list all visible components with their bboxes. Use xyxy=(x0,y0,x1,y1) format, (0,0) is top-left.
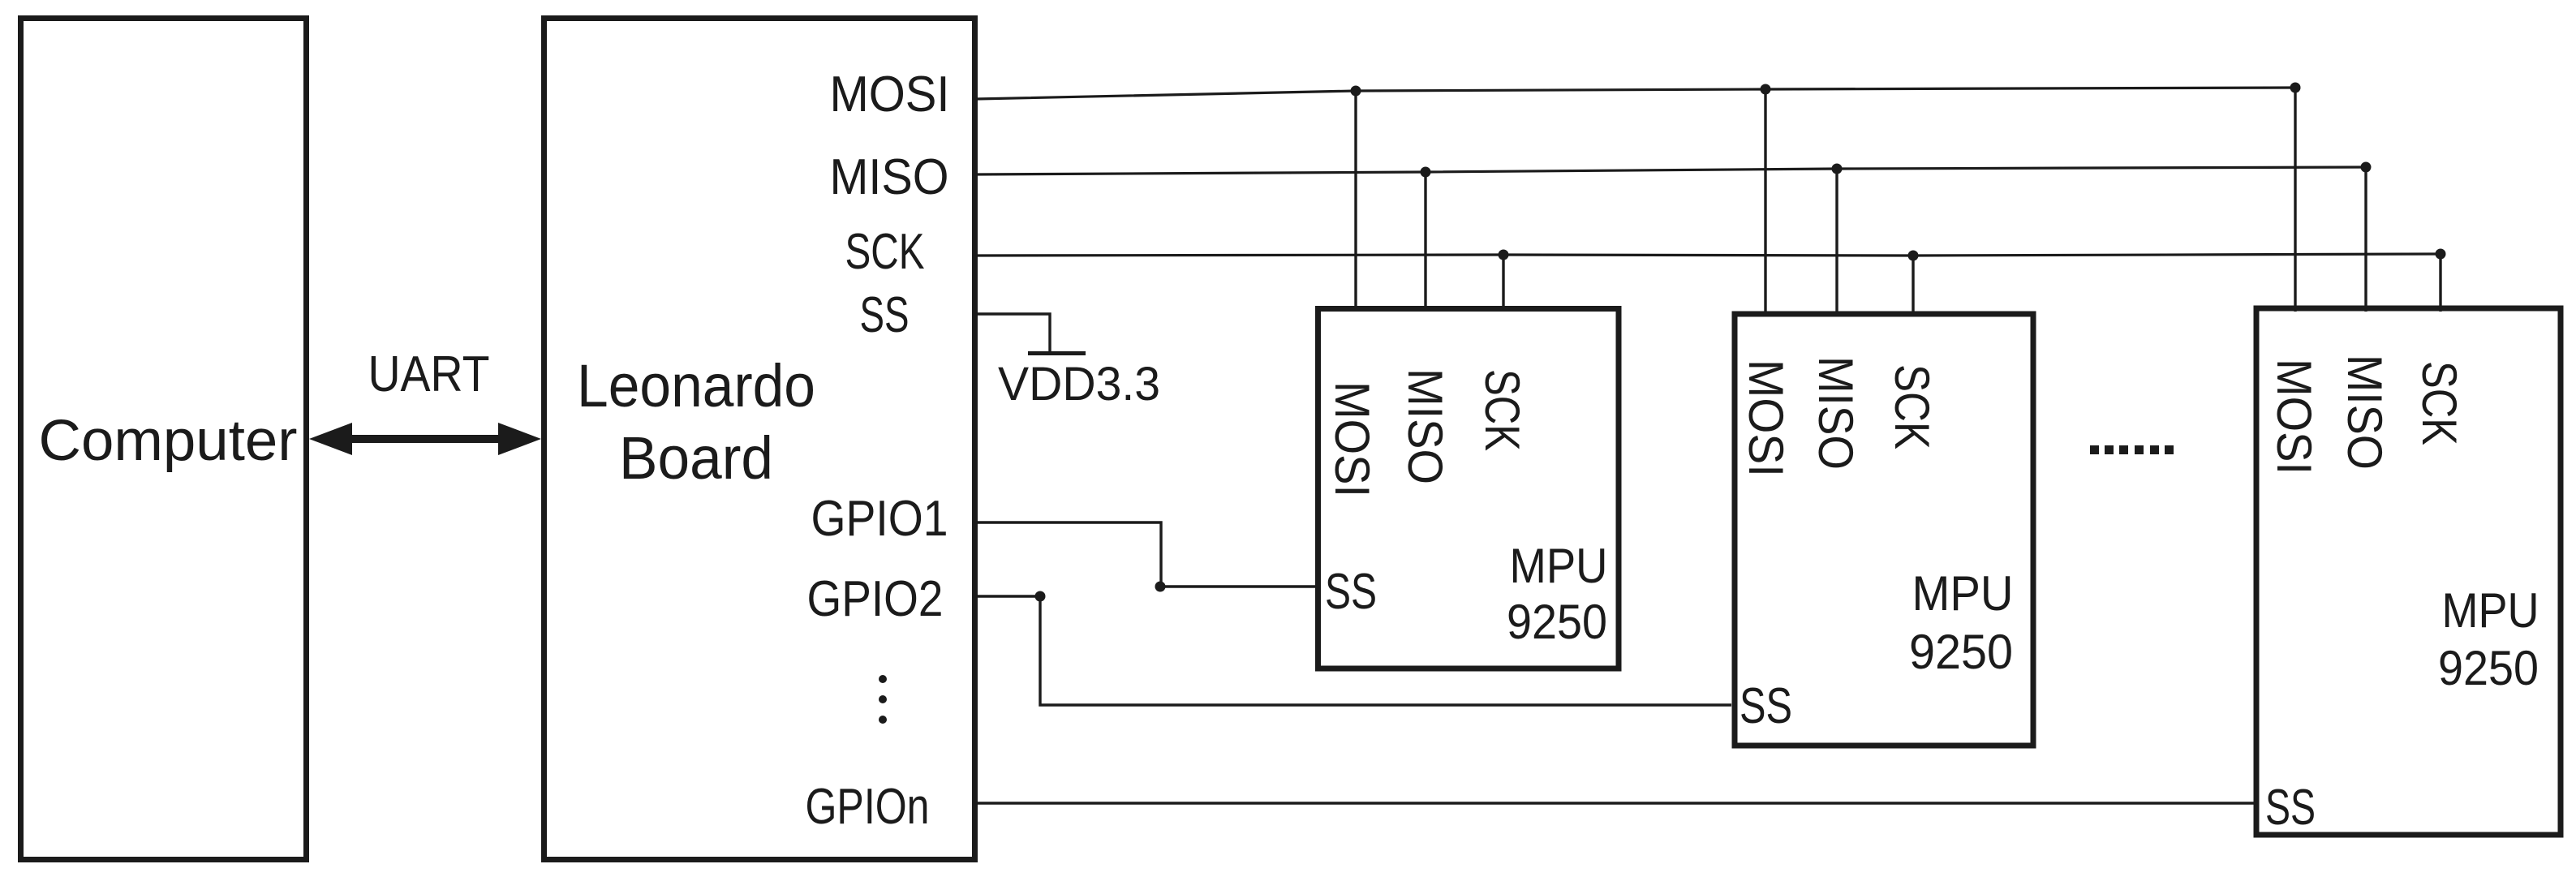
pin label MISO (MPU3, rotated) xyxy=(2337,355,2392,470)
wire MISO drop to MPU3 xyxy=(2364,167,2367,312)
svg-text:SS: SS xyxy=(860,287,910,343)
wire MISO drop to MPU2 xyxy=(1835,169,1838,316)
wire SCK drop to MPU3 xyxy=(2439,254,2441,312)
wire GPIOn to MPU3 SS xyxy=(976,802,2256,804)
UART bidirectional arrow xyxy=(309,423,541,455)
svg-text:GPIO1: GPIO1 xyxy=(811,491,948,547)
junction node SCK-MPU1 xyxy=(1499,250,1509,260)
part label MPU 9250 (MPU3) xyxy=(2438,583,2539,695)
wire MOSI bus xyxy=(976,88,2295,99)
pin label SS (leonardo) xyxy=(860,287,910,343)
svg-text:SS: SS xyxy=(1325,564,1377,620)
pin label SS (MPU1) xyxy=(1325,564,1377,620)
wire SCK drop to MPU2 xyxy=(1912,256,1914,316)
pin label GPIO1 (leonardo) xyxy=(811,491,948,547)
pin label GPIO2 (leonardo) xyxy=(807,571,944,627)
vertical ellipsis (leonardo GPIO dots) xyxy=(879,675,887,724)
pin label MISO (MPU2, rotated) xyxy=(1808,356,1863,470)
svg-text:SCK: SCK xyxy=(2412,361,2466,445)
svg-text:Leonardo: Leonardo xyxy=(577,352,815,419)
wire MOSI drop to MPU2 xyxy=(1764,89,1766,316)
svg-text:SS: SS xyxy=(1740,678,1792,734)
pin label SS (MPU3) xyxy=(2265,780,2316,836)
wire MOSI drop to MPU1 xyxy=(1354,91,1357,312)
svg-text:MISO: MISO xyxy=(830,149,949,205)
svg-text:SCK: SCK xyxy=(1475,369,1529,451)
power label VDD3.3 xyxy=(998,358,1160,411)
pin label SCK (MPU2, rotated) xyxy=(1885,364,1939,449)
part label MPU 9250 (MPU2) xyxy=(1909,566,2014,679)
svg-text:VDD3.3: VDD3.3 xyxy=(998,358,1160,411)
part label MPU 9250 (MPU1) xyxy=(1507,539,1608,649)
junction node SCK-MPU3 xyxy=(2436,249,2446,260)
svg-text:9250: 9250 xyxy=(1909,625,2013,679)
svg-text:SCK: SCK xyxy=(1885,364,1939,449)
pin label SS (MPU2) xyxy=(1740,678,1792,734)
pin label MISO (leonardo) xyxy=(830,149,949,205)
wire GPIO1 to MPU1 SS xyxy=(976,522,1315,587)
svg-text:9250: 9250 xyxy=(2438,641,2539,695)
pin label MISO (MPU1, rotated) xyxy=(1398,368,1452,484)
power rail bar VDD3.3 xyxy=(1028,351,1086,355)
pin label MOSI (leonardo) xyxy=(830,67,950,123)
leonardo board label xyxy=(577,352,815,492)
svg-text:GPIO2: GPIO2 xyxy=(807,571,944,627)
pin label SCK (leonardo) xyxy=(845,224,925,280)
pin label GPIOn (leonardo) xyxy=(806,779,930,835)
computer label xyxy=(39,409,298,473)
svg-text:MISO: MISO xyxy=(1398,368,1452,484)
svg-text:9250: 9250 xyxy=(1507,595,1607,649)
pin label MOSI (MPU3, rotated) xyxy=(2267,359,2321,475)
UART label xyxy=(368,346,490,402)
leonardo board block U-LEO xyxy=(544,19,975,860)
MPU1 block (MPU 9250) xyxy=(1318,309,1619,669)
junction node SCK-MPU2 xyxy=(1908,251,1919,261)
junction node MOSI-MPU2 xyxy=(1761,84,1771,95)
junction node MOSI-MPU1 xyxy=(1351,86,1361,97)
wire GPIO2 to MPU2 SS xyxy=(976,596,1731,705)
MPU3 block (MPU 9250) xyxy=(2256,308,2561,835)
svg-text:Computer: Computer xyxy=(39,409,298,473)
wire MISO drop to MPU1 xyxy=(1424,172,1426,312)
wire MISO bus xyxy=(976,167,2366,174)
ellipsis dots between MPU2 and MPU3 xyxy=(2090,445,2174,454)
wire SS stub to VDD xyxy=(976,314,1050,351)
svg-text:MOSI: MOSI xyxy=(1739,359,1793,477)
svg-text:MPU: MPU xyxy=(2442,583,2539,638)
svg-text:GPIOn: GPIOn xyxy=(806,779,930,835)
wire SCK bus xyxy=(976,254,2441,256)
junction node MISO-MPU1 xyxy=(1421,167,1431,178)
junction node MISO-MPU3 xyxy=(2361,162,2372,173)
wire MOSI drop to MPU3 xyxy=(2294,88,2296,312)
pin label SCK (MPU1, rotated) xyxy=(1475,369,1529,451)
svg-text:MOSI: MOSI xyxy=(1325,381,1379,497)
junction node MOSI-MPU3 xyxy=(2290,83,2301,93)
junction node GPIO2 corner xyxy=(1035,591,1046,602)
pin label MOSI (MPU1, rotated) xyxy=(1325,381,1379,497)
junction node GPIO1 corner xyxy=(1155,582,1166,592)
computer block U-PC xyxy=(21,19,307,860)
svg-text:SCK: SCK xyxy=(845,224,925,280)
svg-text:MOSI: MOSI xyxy=(830,67,950,123)
svg-text:MISO: MISO xyxy=(1808,356,1863,470)
pin label MOSI (MPU2, rotated) xyxy=(1739,359,1793,477)
svg-text:SS: SS xyxy=(2265,780,2316,836)
MPU2 block (MPU 9250) xyxy=(1735,314,2033,746)
svg-text:UART: UART xyxy=(368,346,490,402)
svg-text:MISO: MISO xyxy=(2337,355,2392,470)
svg-text:MOSI: MOSI xyxy=(2267,359,2321,475)
junction node MISO-MPU2 xyxy=(1832,164,1843,174)
pin label SCK (MPU3, rotated) xyxy=(2412,361,2466,445)
svg-text:MPU: MPU xyxy=(1510,539,1608,593)
svg-text:Board: Board xyxy=(619,424,773,492)
wire SCK drop to MPU1 xyxy=(1502,255,1504,312)
svg-text:MPU: MPU xyxy=(1912,566,2014,621)
